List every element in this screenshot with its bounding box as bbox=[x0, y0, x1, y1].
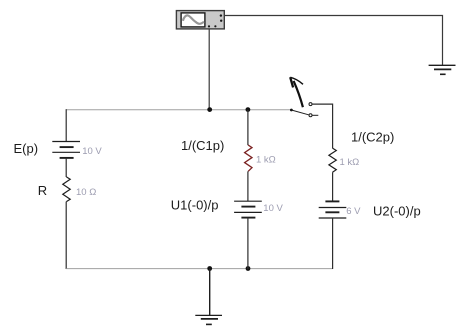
wire scope right to top-right ground bbox=[224, 16, 442, 66]
switch S1 upper contact circle bbox=[309, 103, 312, 106]
wire switch upper contact to right branch bbox=[312, 104, 332, 148]
wire resistor R to bottom wire bbox=[65, 202, 67, 269]
svg-text:10 V: 10 V bbox=[82, 146, 102, 157]
svg-text:1 kΩ: 1 kΩ bbox=[340, 157, 360, 168]
svg-text:1/(C2p): 1/(C2p) bbox=[351, 130, 394, 145]
wire battery E to resistor R bbox=[65, 158, 67, 177]
wire battery U2 to bottom wire bbox=[332, 218, 334, 269]
battery E(p) bbox=[52, 142, 80, 158]
wire resistor C2 to battery U2 bbox=[332, 172, 334, 201]
switch S1 left terminal dot bbox=[290, 109, 293, 112]
svg-text:6 V: 6 V bbox=[346, 206, 361, 217]
switch S1 arrow head down barb bbox=[290, 77, 293, 87]
switch S1 lower contact circle bbox=[309, 114, 312, 117]
wire left branch top bbox=[65, 109, 67, 141]
svg-text:10 V: 10 V bbox=[263, 203, 283, 214]
svg-text:U1(-0)/p: U1(-0)/p bbox=[171, 198, 219, 213]
wire resistor C1 to battery U1 bbox=[247, 171, 249, 201]
switch S1 lever arrow shaft bbox=[294, 81, 303, 107]
node B junction dot bbox=[246, 107, 251, 112]
resistor R bbox=[63, 177, 70, 202]
wire node C to bottom ground bbox=[209, 269, 211, 316]
node C junction dot bbox=[207, 266, 212, 271]
wire middle branch top bbox=[247, 110, 249, 146]
svg-text:1/(C1p): 1/(C1p) bbox=[181, 138, 224, 153]
node D junction dot bbox=[246, 266, 251, 271]
wire scope bottom to node A bbox=[208, 29, 210, 109]
switch S1 arrow head right barb bbox=[290, 77, 303, 84]
svg-text:E(p): E(p) bbox=[14, 141, 39, 156]
svg-text:10 Ω: 10 Ω bbox=[76, 187, 96, 198]
switch S1 moving contact line bbox=[291, 110, 308, 115]
switch S1 lower contact stub bbox=[312, 114, 318, 116]
svg-text:R: R bbox=[38, 183, 47, 198]
oscilloscope U_scope body bbox=[176, 11, 224, 29]
wire battery U1 to bottom wire bbox=[247, 218, 249, 269]
resistor 1/(C1p) bbox=[245, 145, 252, 171]
battery U2(-0)/p bbox=[319, 201, 347, 218]
wire top horizontal bbox=[66, 109, 291, 111]
battery U1(-0)/p bbox=[234, 201, 262, 217]
resistor 1/(C2p) bbox=[329, 148, 336, 172]
ground (top right) bbox=[429, 65, 456, 74]
ground (bottom) bbox=[195, 315, 222, 324]
node A junction dot bbox=[207, 107, 212, 112]
svg-text:U2(-0)/p: U2(-0)/p bbox=[373, 204, 421, 219]
wire bottom horizontal bbox=[66, 268, 332, 270]
svg-text:1 kΩ: 1 kΩ bbox=[256, 154, 276, 165]
